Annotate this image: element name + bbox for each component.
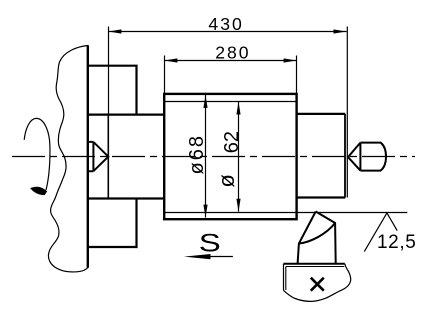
tool holder X mark: [311, 278, 324, 291]
workpiece left end face: [107, 115, 109, 199]
dimension 280 line: [165, 60, 297, 62]
machined allowance line top (Ø62): [164, 101, 296, 103]
dimension 430 left extension line: [108, 27, 110, 115]
dimension 280 left arrow: [165, 58, 178, 62]
svg-text:ø68: ø68: [186, 134, 208, 174]
dimension 430 right arrow: [334, 29, 347, 33]
tool holder left edge: [283, 264, 285, 291]
svg-text:62: 62: [221, 131, 243, 153]
svg-text:430: 430: [208, 14, 243, 34]
cutting tool insert: [298, 212, 336, 264]
svg-text:S: S: [199, 230, 221, 257]
workpiece right end face: [344, 114, 346, 198]
shaft left section top edge: [88, 113, 164, 115]
dimension 430 line: [109, 31, 347, 33]
dimension 280 left extension line: [164, 56, 166, 94]
chuck face: [87, 45, 89, 267]
tool holder top: [284, 263, 345, 265]
rotation arrow n (spindle): [24, 118, 50, 190]
dimension 430 left arrow: [109, 29, 122, 33]
shaft right section: [297, 114, 346, 198]
drive center (left): [88, 142, 109, 171]
svg-text:ø: ø: [214, 174, 239, 187]
chuck break line (freehand wavy outline): [48, 46, 87, 272]
centerline (dash-dot axis): [12, 156, 415, 158]
dimension 280 right extension line: [296, 56, 298, 94]
feed arrow: [208, 256, 233, 258]
dimension Ø62 bottom arrow: [236, 199, 240, 212]
dimension 280 right arrow: [284, 58, 297, 62]
chuck jaw lower: [88, 199, 137, 248]
dimension Ø62 line: [238, 102, 240, 212]
dimension 430 right extension line: [346, 27, 348, 198]
shaft left section bottom edge: [88, 197, 164, 199]
tool holder inner line: [286, 267, 345, 291]
dimension Ø68 bottom arrow: [203, 205, 207, 218]
cutting tool rake face curve: [299, 223, 335, 244]
svg-text:280: 280: [215, 43, 250, 63]
dimension Ø68 top arrow: [203, 95, 207, 108]
machined surface line bottom (Ø62, extends to roughness mark): [165, 212, 407, 214]
chuck jaw upper: [88, 66, 137, 115]
roughness symbol: [364, 213, 397, 252]
dimension Ø62 top arrow: [236, 102, 240, 115]
tailstock center cone: [348, 143, 360, 171]
workpiece big cylinder (Ø68 raw): [164, 94, 296, 219]
tool holder freehand bottom: [284, 264, 351, 302]
dimension Ø68 line: [205, 95, 207, 218]
svg-text:12,5: 12,5: [377, 232, 416, 253]
tailstock center body: [360, 143, 386, 171]
